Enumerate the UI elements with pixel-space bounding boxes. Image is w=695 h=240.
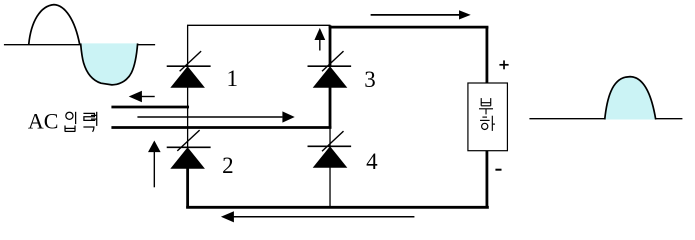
svg-text:3: 3 — [364, 67, 376, 92]
svg-text:1: 1 — [227, 66, 239, 91]
svg-text:4: 4 — [366, 149, 378, 174]
svg-text:2: 2 — [222, 153, 234, 178]
svg-text:AC: AC — [28, 108, 59, 133]
